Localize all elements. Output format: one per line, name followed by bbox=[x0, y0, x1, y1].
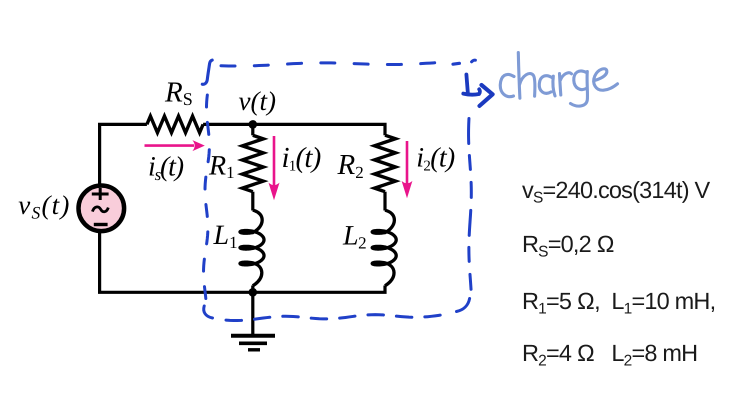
voltage source VS circle bbox=[79, 186, 125, 232]
resistor R2 bbox=[375, 135, 396, 192]
wire: L1 to bottom node bbox=[251, 286, 254, 293]
svg-text:is(t): is(t) bbox=[148, 152, 184, 185]
wire: top-left from source to Rs bbox=[100, 124, 147, 183]
plus sign bbox=[92, 188, 109, 200]
handwritten word charge bbox=[500, 53, 617, 107]
boundary dashed box: bottom edge bbox=[226, 314, 450, 321]
current arrow i2 bbox=[402, 141, 413, 198]
boundary dashed box: right edge bbox=[469, 119, 472, 292]
hand arrow horizontal stroke with hook bbox=[463, 89, 480, 94]
minus sign bbox=[94, 223, 108, 226]
svg-text:RS: RS bbox=[164, 77, 193, 109]
svg-text:L1: L1 bbox=[213, 220, 238, 252]
wire: Rs to node v(t) and to right branch bbox=[203, 124, 385, 135]
wire: R2 to L2 bbox=[383, 192, 386, 211]
svg-text:R2: R2 bbox=[337, 149, 364, 182]
svg-text:R1: R1 bbox=[208, 150, 235, 182]
boundary dashed box: short dash near hand arrow bbox=[453, 62, 459, 66]
wire: node down to R1 bbox=[251, 124, 254, 135]
boundary dashed box: top edge bbox=[221, 62, 449, 66]
svg-text:v(t): v(t) bbox=[239, 86, 276, 116]
svg-text:vS=240.cos(314t) V: vS=240.cos(314t) V bbox=[522, 177, 710, 207]
node v(t) dot bbox=[249, 120, 258, 129]
current arrow i1 bbox=[269, 136, 280, 200]
tilde bbox=[92, 207, 108, 212]
boundary dashed box: bottom-left corner hook bbox=[204, 306, 213, 318]
svg-text:i2(t): i2(t) bbox=[416, 143, 455, 175]
current arrow is bbox=[145, 140, 205, 151]
boundary dashed box: top-left corner hook bbox=[202, 60, 212, 84]
svg-text:vS(t): vS(t) bbox=[18, 190, 70, 223]
wire: bottom rail bbox=[100, 233, 385, 293]
ground bbox=[231, 292, 275, 350]
svg-text:R2=4 Ω L2=8 mH: R2=4 Ω L2=8 mH bbox=[522, 340, 697, 370]
hand arrow head bbox=[480, 85, 493, 106]
inductor L2 bbox=[372, 210, 396, 286]
svg-text:RS=0,2 Ω: RS=0,2 Ω bbox=[522, 231, 614, 261]
bottom node dot bbox=[249, 288, 258, 297]
boundary dashed box: left edge bbox=[204, 95, 210, 300]
inductor L1 bbox=[240, 210, 264, 286]
resistor RS bbox=[147, 116, 203, 133]
boundary dashed box: bottom-right corner bbox=[457, 299, 470, 312]
boundary dashed box: tiny dash above arrow bbox=[472, 60, 476, 62]
svg-text:L2: L2 bbox=[342, 221, 366, 253]
hand arrow vertical stroke bbox=[466, 75, 467, 93]
svg-text:R1=5 Ω, L1=10 mH,: R1=5 Ω, L1=10 mH, bbox=[522, 288, 715, 318]
wire: R1 to L1 bbox=[251, 192, 254, 211]
svg-text:i1(t): i1(t) bbox=[282, 142, 321, 175]
resistor R1 bbox=[242, 135, 263, 191]
